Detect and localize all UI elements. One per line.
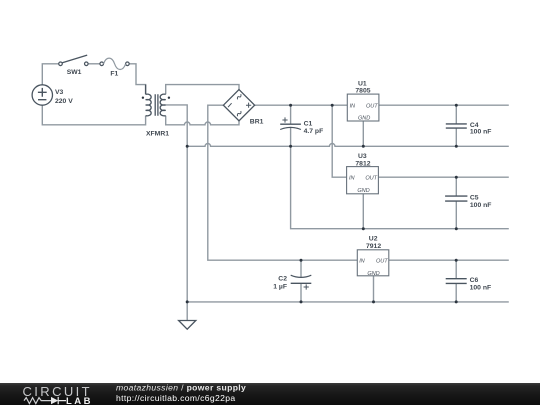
wire C2 bottom lead	[300, 283, 302, 302]
wire U1 GND	[362, 121, 364, 146]
wire C1 bottom lead	[290, 128, 292, 147]
regulator U3 7812	[347, 153, 379, 194]
voltage source V3	[32, 85, 73, 105]
wire U3 OUT rail	[378, 176, 508, 178]
regulator U1 7805	[347, 80, 379, 121]
svg-text:moatazhussien / power supply: moatazhussien / power supply	[116, 383, 246, 393]
node rail2 left	[186, 145, 189, 148]
node C2 bottom	[300, 300, 303, 303]
wire C1 top lead	[290, 105, 292, 124]
wire U2 GND	[373, 276, 375, 302]
regulator U2 7912	[357, 235, 389, 276]
svg-text:4.7 pF: 4.7 pF	[304, 128, 324, 135]
svg-text:GND: GND	[357, 188, 369, 194]
svg-text:7912: 7912	[366, 243, 381, 250]
svg-text:220 V: 220 V	[55, 98, 73, 105]
node U1 GND	[362, 145, 365, 148]
svg-text:OUT: OUT	[376, 259, 388, 265]
node C4 bottom	[455, 145, 458, 148]
svg-text:7812: 7812	[355, 161, 370, 168]
wire ground rail 2 with hops	[187, 144, 509, 147]
wire F1 to XFMR1 primary top	[129, 64, 145, 95]
wire XFMR1 secondary top to BR1 top	[166, 85, 239, 95]
node C4 top	[455, 104, 458, 107]
svg-text:C2: C2	[278, 275, 287, 282]
svg-text:1 µF: 1 µF	[273, 283, 287, 290]
wire C5 leads	[455, 177, 457, 229]
node ground tap	[186, 300, 189, 303]
wire XFMR1 secondary bottom to BR1 bottom with hops	[166, 116, 239, 125]
wire C6 leads	[455, 260, 457, 302]
capacitor C2	[273, 275, 311, 290]
svg-text:http://circuitlab.com/c6g22pa: http://circuitlab.com/c6g22pa	[116, 393, 236, 403]
svg-text:SW1: SW1	[67, 69, 82, 76]
logo resistor zigzag	[24, 398, 51, 404]
wire U1 OUT rail	[379, 104, 509, 106]
svg-text:OUT: OUT	[365, 176, 377, 182]
node U3 GND	[362, 227, 365, 230]
wire C2 top lead	[300, 260, 302, 277]
svg-text:F1: F1	[110, 71, 118, 78]
svg-text:C1: C1	[304, 121, 313, 128]
wire U3 GND	[362, 194, 364, 229]
node C5 top	[455, 176, 458, 179]
svg-text:100 nF: 100 nF	[470, 285, 492, 292]
ground	[179, 321, 196, 330]
svg-text:100 nF: 100 nF	[470, 129, 492, 136]
node U2 GND	[372, 300, 375, 303]
capacitor C6	[446, 277, 491, 291]
wire BR1 minus to U2 IN	[208, 105, 357, 260]
svg-text:GND: GND	[367, 271, 379, 277]
node C1 top	[289, 104, 292, 107]
bridge rectifier BR1	[223, 90, 263, 126]
capacitor C1	[280, 117, 323, 135]
svg-text:C6: C6	[470, 277, 479, 284]
wire center tap to ground column	[166, 105, 188, 146]
node C6 top	[455, 259, 458, 262]
wire bottom ground rail	[187, 301, 509, 303]
node C1 bottom	[289, 145, 292, 148]
svg-text:100 nF: 100 nF	[470, 202, 492, 209]
svg-text:BR1: BR1	[250, 118, 264, 125]
svg-text:XFMR1: XFMR1	[146, 131, 169, 138]
wire C4 leads	[455, 105, 457, 146]
wire XFMR1 primary bottom to V3 bottom	[42, 105, 145, 125]
wire ground drop to rail 3	[291, 146, 509, 228]
node C5 bottom	[455, 227, 458, 230]
wire U3 feed drop	[332, 105, 346, 177]
svg-text:U1: U1	[358, 80, 367, 87]
node C2 top	[300, 259, 303, 262]
wire V3 top lead to SW1	[42, 64, 58, 85]
wire ground column	[186, 146, 188, 302]
transformer XFMR1	[142, 85, 170, 138]
fuse F1	[100, 58, 129, 78]
svg-text:GND: GND	[358, 116, 370, 122]
svg-text:OUT: OUT	[366, 104, 378, 110]
svg-text:V3: V3	[55, 89, 64, 96]
svg-text:U3: U3	[358, 153, 367, 160]
svg-text:7805: 7805	[355, 87, 370, 94]
wire U2 OUT rail	[389, 259, 509, 261]
wire SW1 to F1	[88, 63, 100, 65]
wire ground stub	[186, 302, 188, 321]
svg-text:U2: U2	[369, 235, 378, 242]
node C6 bottom	[455, 300, 458, 303]
node U3 feed tap	[331, 104, 334, 107]
svg-text:C5: C5	[470, 195, 479, 202]
footer bar	[0, 383, 540, 405]
wire BR1 plus to U1 IN	[254, 104, 347, 106]
switch SW1	[59, 55, 88, 76]
logo diode	[51, 397, 58, 404]
capacitor C5	[445, 195, 491, 209]
svg-text:LAB: LAB	[66, 396, 93, 405]
capacitor C4	[446, 122, 492, 135]
